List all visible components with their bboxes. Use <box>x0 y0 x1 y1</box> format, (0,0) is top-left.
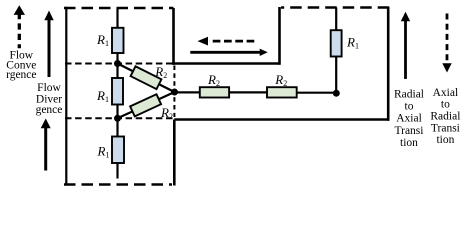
svg-text:gence: gence <box>36 104 63 116</box>
svg-text:Axial: Axial <box>396 113 422 125</box>
duct channel left wall <box>172 8 175 65</box>
wire main horizontal left segment <box>175 91 201 93</box>
svg-text:Transi: Transi <box>395 125 424 137</box>
resistor R1 top <box>112 28 124 53</box>
boundary dashed top-right segment <box>281 6 389 9</box>
wire top lead of R1 top <box>116 8 118 28</box>
resistor R2 diagonal upper <box>131 66 162 89</box>
arrow dashed down (axial to radial) <box>442 14 451 73</box>
arrow solid up (flow divergence lower) <box>41 119 51 171</box>
arrow dashed left (reverse axial flow) <box>198 37 255 46</box>
svg-text:Radial: Radial <box>394 88 424 100</box>
boundary solid left border <box>65 7 67 186</box>
wire bottom lead of R1 top <box>116 53 118 64</box>
inner dashed horizontal line upper <box>65 63 174 65</box>
wire bottom lead of R1 middle <box>116 105 118 119</box>
wire main horizontal middle segment <box>229 91 267 93</box>
svg-text:tion: tion <box>400 137 418 149</box>
wire diagonal node2 to node A <box>118 92 175 118</box>
node 1 <box>114 60 121 67</box>
resistor R1 middle <box>112 78 123 105</box>
inner dashed horizontal line lower <box>65 117 174 119</box>
wire top lead of R1 bottom <box>116 118 118 136</box>
duct channel right wall <box>278 7 281 65</box>
resistor R1 right <box>331 30 342 56</box>
wire top lead of R1 middle <box>116 64 118 79</box>
arrow solid up (radial to axial) <box>401 12 410 79</box>
node B <box>333 90 340 97</box>
resistor R2 diagonal lower <box>130 94 161 116</box>
svg-text:rgence: rgence <box>6 69 36 81</box>
svg-text:to: to <box>441 99 450 111</box>
solid bottom-left vertical wall <box>173 120 176 186</box>
wire diagonal node1 to node A <box>118 64 175 93</box>
inner dashed vertical line <box>173 66 175 118</box>
resistor R1 bottom <box>112 137 124 164</box>
svg-text:tion: tion <box>436 134 454 146</box>
arrow solid up (flow divergence upper) <box>44 11 53 78</box>
svg-text:to: to <box>405 101 414 113</box>
duct channel bottom wall <box>172 62 279 65</box>
arrow solid right (axial flow) <box>190 49 267 56</box>
svg-text:Transi: Transi <box>431 122 460 134</box>
wire bottom lead of R1 bottom <box>116 163 118 179</box>
wire top lead of R1 right <box>335 8 337 31</box>
wire bottom lead of R1 right <box>335 57 337 94</box>
solid right border wall <box>387 7 390 121</box>
arrow dashed up (flow convergence) <box>14 5 25 48</box>
boundary dashed bottom segment <box>64 183 172 186</box>
boundary dashed top-left segment <box>64 7 174 10</box>
svg-text:Flow: Flow <box>37 82 61 94</box>
svg-text:Radial: Radial <box>430 111 460 123</box>
wire main horizontal right segment <box>297 92 337 94</box>
resistor R2 horizontal 1 <box>200 87 229 97</box>
svg-text:Axial: Axial <box>433 87 459 99</box>
solid bottom duct wall <box>174 118 389 121</box>
node 2 <box>114 115 121 122</box>
node A <box>171 89 178 96</box>
resistor R2 horizontal 2 <box>267 87 297 97</box>
